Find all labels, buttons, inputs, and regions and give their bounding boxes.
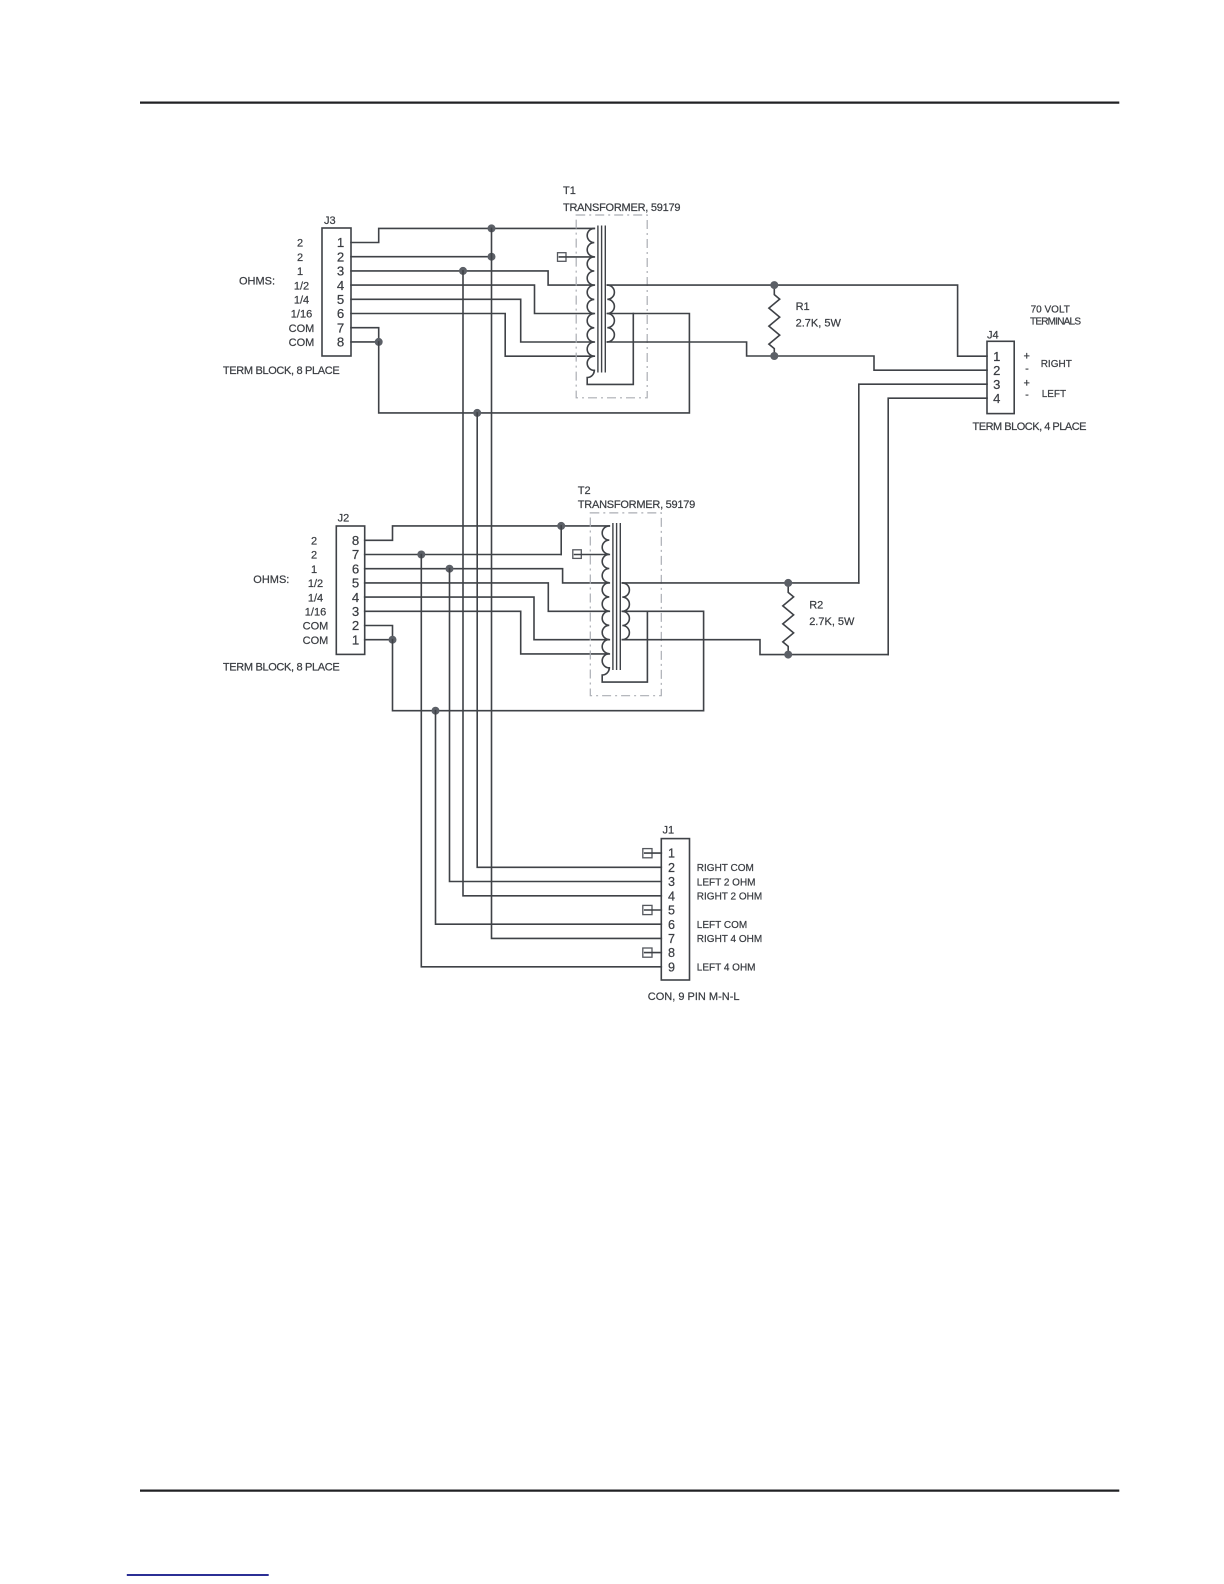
T2 primary tap stub symbol — [573, 550, 582, 559]
svg-text:8: 8 — [668, 946, 675, 960]
svg-text:5: 5 — [337, 292, 344, 307]
J1 pin8 NC stub symbol — [643, 948, 652, 957]
T2 secondary winding — [622, 583, 629, 640]
wire T2 secondary bottom to R2 bottom line / J4-4 riser — [622, 640, 888, 655]
footer rule — [140, 1489, 1119, 1491]
svg-text:1/4: 1/4 — [308, 592, 323, 604]
header rule — [140, 101, 1119, 103]
wire J3-6 stepped to T1 primary tap — [351, 314, 594, 357]
svg-text:COM: COM — [303, 621, 329, 633]
wire J4-3 down to T2 secondary top — [859, 384, 987, 583]
T2 primary bottom lead to secondary tap line — [602, 611, 647, 682]
svg-text:2: 2 — [297, 252, 303, 264]
node R2 top — [784, 579, 792, 587]
svg-text:2: 2 — [993, 363, 1000, 378]
svg-text:4: 4 — [337, 278, 344, 293]
svg-text:T2: T2 — [578, 485, 591, 497]
wire J2-6 stepped to T2 primary tap — [365, 569, 610, 583]
resistor R1 — [769, 285, 780, 356]
svg-text:8: 8 — [337, 335, 344, 350]
svg-text:2: 2 — [297, 238, 303, 250]
wire J2-7 — [365, 554, 562, 556]
T1 secondary winding — [607, 285, 614, 342]
svg-text:TERMINALS: TERMINALS — [1030, 317, 1081, 328]
wire J2-4 stepped to T2 primary tap — [365, 597, 610, 640]
T2 core — [613, 523, 620, 670]
wire T2 tap stub to winding — [575, 554, 610, 556]
wire T1 tap stub to winding — [559, 256, 594, 258]
svg-text:3: 3 — [668, 875, 675, 889]
svg-text:LEFT COM: LEFT COM — [697, 920, 747, 931]
svg-text:RIGHT 2 OHM: RIGHT 2 OHM — [697, 892, 762, 903]
svg-text:1/4: 1/4 — [294, 295, 309, 307]
svg-text:-: - — [1025, 389, 1029, 401]
wire J3-2 to riser — [351, 256, 492, 258]
term block J3 — [322, 228, 351, 356]
svg-text:5: 5 — [352, 576, 359, 591]
wire drop J2-8 node to J2-7 wire — [560, 526, 562, 555]
transformer T1 dashed outline — [576, 215, 647, 398]
svg-text:7: 7 — [337, 320, 344, 335]
svg-text:TERM BLOCK, 8 PLACE: TERM BLOCK, 8 PLACE — [223, 365, 340, 377]
J4 polarity labels — [1023, 351, 1029, 401]
T1 primary tap stub symbol — [558, 253, 567, 262]
T2 primary winding — [602, 526, 609, 668]
svg-text:1: 1 — [311, 564, 317, 576]
svg-text:2: 2 — [337, 249, 344, 264]
wire J4-4 down to R2 bottom line — [888, 398, 987, 654]
svg-text:2: 2 — [352, 618, 359, 633]
J4 pin numbers 1-4 — [993, 349, 1000, 406]
svg-text:LEFT: LEFT — [1042, 389, 1066, 400]
riser: right com net to J1-2 — [477, 413, 661, 867]
svg-text:2.7K, 5W: 2.7K, 5W — [796, 317, 842, 329]
J3 pin numbers 1-8 — [337, 235, 344, 349]
svg-text:7: 7 — [668, 932, 675, 946]
svg-text:1: 1 — [337, 235, 344, 250]
svg-text:3: 3 — [337, 264, 344, 279]
wire J2-3 stepped to T2 primary tap — [365, 611, 610, 654]
svg-text:RIGHT 4 OHM: RIGHT 4 OHM — [697, 934, 762, 945]
riser: right 2 ohm net to J1-4 — [463, 271, 661, 896]
node R2 bottom — [784, 651, 792, 659]
svg-text:4: 4 — [352, 590, 359, 605]
svg-text:8: 8 — [352, 533, 359, 548]
node J3-1 riser junction — [488, 224, 496, 232]
node COM riser junction — [473, 409, 481, 417]
svg-text:3: 3 — [352, 604, 359, 619]
footnote blue line — [127, 1574, 269, 1576]
connector J1 — [661, 839, 689, 980]
svg-text:2: 2 — [668, 861, 675, 875]
svg-text:COM: COM — [303, 635, 329, 647]
riser: left 4 ohm net to J1-9 — [421, 555, 661, 967]
svg-text:-: - — [1025, 363, 1029, 375]
svg-text:2: 2 — [311, 550, 317, 562]
svg-text:LEFT 4 OHM: LEFT 4 OHM — [697, 963, 756, 974]
node COM riser junction (left) — [432, 707, 440, 715]
svg-text:+: + — [1023, 377, 1029, 389]
svg-text:TRANSFORMER, 59179: TRANSFORMER, 59179 — [563, 202, 681, 214]
riser: left 2 ohm net to J1-3 — [450, 569, 662, 882]
node J3 pin7/8 junction — [375, 338, 383, 346]
J1 pin5 NC stub symbol — [643, 905, 652, 914]
svg-text:1: 1 — [352, 632, 359, 647]
wire J3-3 stepped to T1 primary tap — [351, 271, 594, 285]
svg-text:LEFT 2 OHM: LEFT 2 OHM — [697, 877, 756, 888]
svg-text:J2: J2 — [338, 513, 350, 525]
svg-text:1: 1 — [993, 349, 1000, 364]
riser: right 4 ohm net to J1-7 — [492, 228, 662, 938]
svg-text:4: 4 — [668, 889, 675, 903]
node R1 top — [770, 281, 778, 289]
svg-text:TERM BLOCK, 4 PLACE: TERM BLOCK, 4 PLACE — [973, 421, 1087, 433]
svg-text:9: 9 — [668, 960, 675, 974]
wire J3-8 COM — [351, 341, 379, 343]
svg-text:TRANSFORMER, 59179: TRANSFORMER, 59179 — [578, 499, 696, 511]
J2 pin numbers 8-1 — [352, 533, 359, 647]
svg-text:TERM BLOCK, 8 PLACE: TERM BLOCK, 8 PLACE — [223, 661, 340, 673]
T1 primary winding — [587, 228, 594, 370]
wire J3-7 down to J3-8 — [351, 328, 379, 342]
wire J1 pin1 stub — [645, 852, 662, 854]
node R1 bottom — [770, 352, 778, 360]
J2 ohms value labels — [303, 536, 329, 647]
node J2-6 riser junction — [446, 565, 454, 573]
wire J3-1 to T1 primary top — [351, 228, 594, 242]
riser: left com net to J1-6 — [436, 711, 662, 925]
node J3-2 riser junction — [488, 253, 496, 261]
svg-text:7: 7 — [352, 547, 359, 562]
svg-text:1: 1 — [297, 266, 303, 278]
wire J1 pin5 stub — [645, 909, 662, 911]
svg-text:J4: J4 — [987, 330, 999, 342]
wire J2-1 COM — [365, 639, 393, 641]
wire J2-5 stepped to T2 primary tap — [365, 583, 610, 611]
J1 pin1 NC stub symbol — [643, 849, 652, 858]
node J2-7 riser junction — [417, 551, 425, 559]
svg-text:J3: J3 — [324, 215, 336, 227]
svg-text:3: 3 — [993, 377, 1000, 392]
svg-text:70 VOLT: 70 VOLT — [1031, 305, 1070, 316]
svg-text:2.7K, 5W: 2.7K, 5W — [809, 616, 855, 628]
svg-text:6: 6 — [352, 561, 359, 576]
wire J1 pin8 stub — [645, 952, 662, 954]
svg-text:4: 4 — [993, 391, 1000, 406]
svg-text:6: 6 — [337, 306, 344, 321]
wire J2-8 to T2 primary top — [365, 526, 610, 540]
svg-text:1/16: 1/16 — [305, 607, 326, 619]
wire T1 secondary bottom to J4-2 — [607, 342, 987, 370]
term block J4 — [987, 341, 1014, 413]
svg-text:RIGHT COM: RIGHT COM — [697, 863, 754, 874]
svg-text:COM: COM — [289, 323, 315, 335]
svg-text:RIGHT: RIGHT — [1041, 359, 1072, 370]
wire T1 secondary top to J4-1 — [607, 285, 987, 356]
svg-text:2: 2 — [311, 536, 317, 548]
transformer T2 dashed outline — [590, 513, 661, 696]
wire J2-2 down to J2-1 — [365, 626, 393, 640]
wire J3-5 stepped to T1 primary tap — [351, 299, 594, 342]
svg-text:OHMS:: OHMS: — [239, 275, 275, 287]
svg-text:OHMS:: OHMS: — [253, 574, 289, 586]
svg-text:J1: J1 — [663, 825, 675, 837]
wire COM run under T2 to secondary tap — [393, 611, 704, 710]
resistor R2 — [783, 583, 794, 655]
J3 ohms value labels — [289, 238, 315, 349]
svg-text:T1: T1 — [563, 185, 576, 197]
svg-text:COM: COM — [289, 337, 315, 349]
wire T2 secondary top to R2/J4-3 riser — [622, 582, 859, 584]
wire COM run under T1 to secondary tap — [379, 314, 690, 413]
T1 primary bottom lead to secondary tap line — [587, 314, 633, 385]
wire J3-4 stepped to T1 primary tap — [351, 285, 594, 313]
svg-text:1/2: 1/2 — [308, 578, 323, 590]
svg-text:R2: R2 — [809, 600, 823, 612]
svg-text:R1: R1 — [796, 301, 810, 313]
node J3-3 riser junction — [459, 267, 467, 275]
svg-text:CON, 9 PIN M-N-L: CON, 9 PIN M-N-L — [648, 991, 740, 1003]
svg-text:1/2: 1/2 — [294, 280, 309, 292]
J1 pin numbers 1-9 — [668, 847, 675, 975]
svg-text:+: + — [1023, 351, 1029, 363]
svg-text:1: 1 — [668, 847, 675, 861]
svg-text:1/16: 1/16 — [291, 309, 312, 321]
J1 signal labels — [697, 863, 762, 973]
node J2 pin1/2 junction — [389, 636, 397, 644]
svg-text:6: 6 — [668, 918, 675, 932]
term block J2 — [336, 526, 364, 654]
svg-text:5: 5 — [668, 904, 675, 918]
T1 core — [598, 226, 605, 373]
node J2-8 riser junction — [557, 522, 565, 530]
